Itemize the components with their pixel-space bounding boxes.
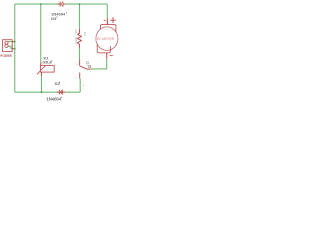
relay K1 contact (switch lever)	[80, 59, 91, 79]
contact circle	[89, 65, 91, 67]
motor plus sign	[110, 17, 115, 23]
wire relay coil to bottom	[41, 76, 43, 92]
motor bottom lead	[106, 53, 108, 59]
wire relay coil branch	[40, 4, 42, 63]
junction bottom wire / relay coil	[41, 91, 43, 93]
svg-text:1: 1	[105, 30, 107, 32]
junction jack lead 2	[14, 48, 16, 50]
motor minus sign	[104, 19, 106, 21]
junction top wire / resistor branch	[79, 3, 81, 5]
diode D3	[57, 2, 65, 7]
diode D2	[57, 90, 65, 95]
contact pin glyph	[86, 62, 88, 64]
svg-text:DC MOTOR: DC MOTOR	[97, 37, 115, 41]
svg-text:1N4004: 1N4004	[46, 96, 61, 101]
wire motor plus	[106, 4, 108, 18]
motor top lead	[106, 19, 108, 25]
junction top wire / relay branch	[40, 3, 42, 5]
wire resistor branch upper	[79, 4, 81, 29]
wire top horizontal	[15, 3, 108, 5]
motor top brush box	[100, 25, 116, 32]
svg-text:POWER: POWER	[0, 54, 12, 58]
svg-text:D3: D3	[51, 16, 57, 21]
wire jack lead 2	[8, 46, 15, 49]
motor bottom minus sign	[110, 55, 113, 57]
wire top net (left vertical + top horizontal)	[8, 4, 108, 92]
svg-text:5W: 5W	[74, 29, 78, 34]
power jack J1	[3, 40, 14, 52]
junction jack lead 1	[14, 41, 16, 43]
relay K1 coil	[37, 63, 54, 76]
motor bottom brush box	[97, 45, 110, 53]
pin dot near riser	[83, 85, 84, 86]
wire switch to motor bottom	[91, 58, 107, 69]
resistor R1	[78, 29, 82, 48]
svg-text:220Ω: 220Ω	[74, 36, 78, 44]
wire bottom horizontal	[15, 91, 80, 93]
wire resistor to switch	[79, 48, 81, 60]
wire jack lead 1	[8, 41, 15, 43]
wire left vertical	[14, 4, 16, 92]
svg-text:G5LE: G5LE	[42, 60, 52, 64]
motor M1 body	[96, 27, 118, 51]
svg-text:2: 2	[102, 55, 104, 57]
wire bottom-right riser to switch	[79, 79, 81, 93]
svg-text:R1: R1	[83, 31, 87, 35]
svg-text:2: 2	[76, 78, 78, 80]
svg-text:1c: 1c	[76, 64, 79, 66]
